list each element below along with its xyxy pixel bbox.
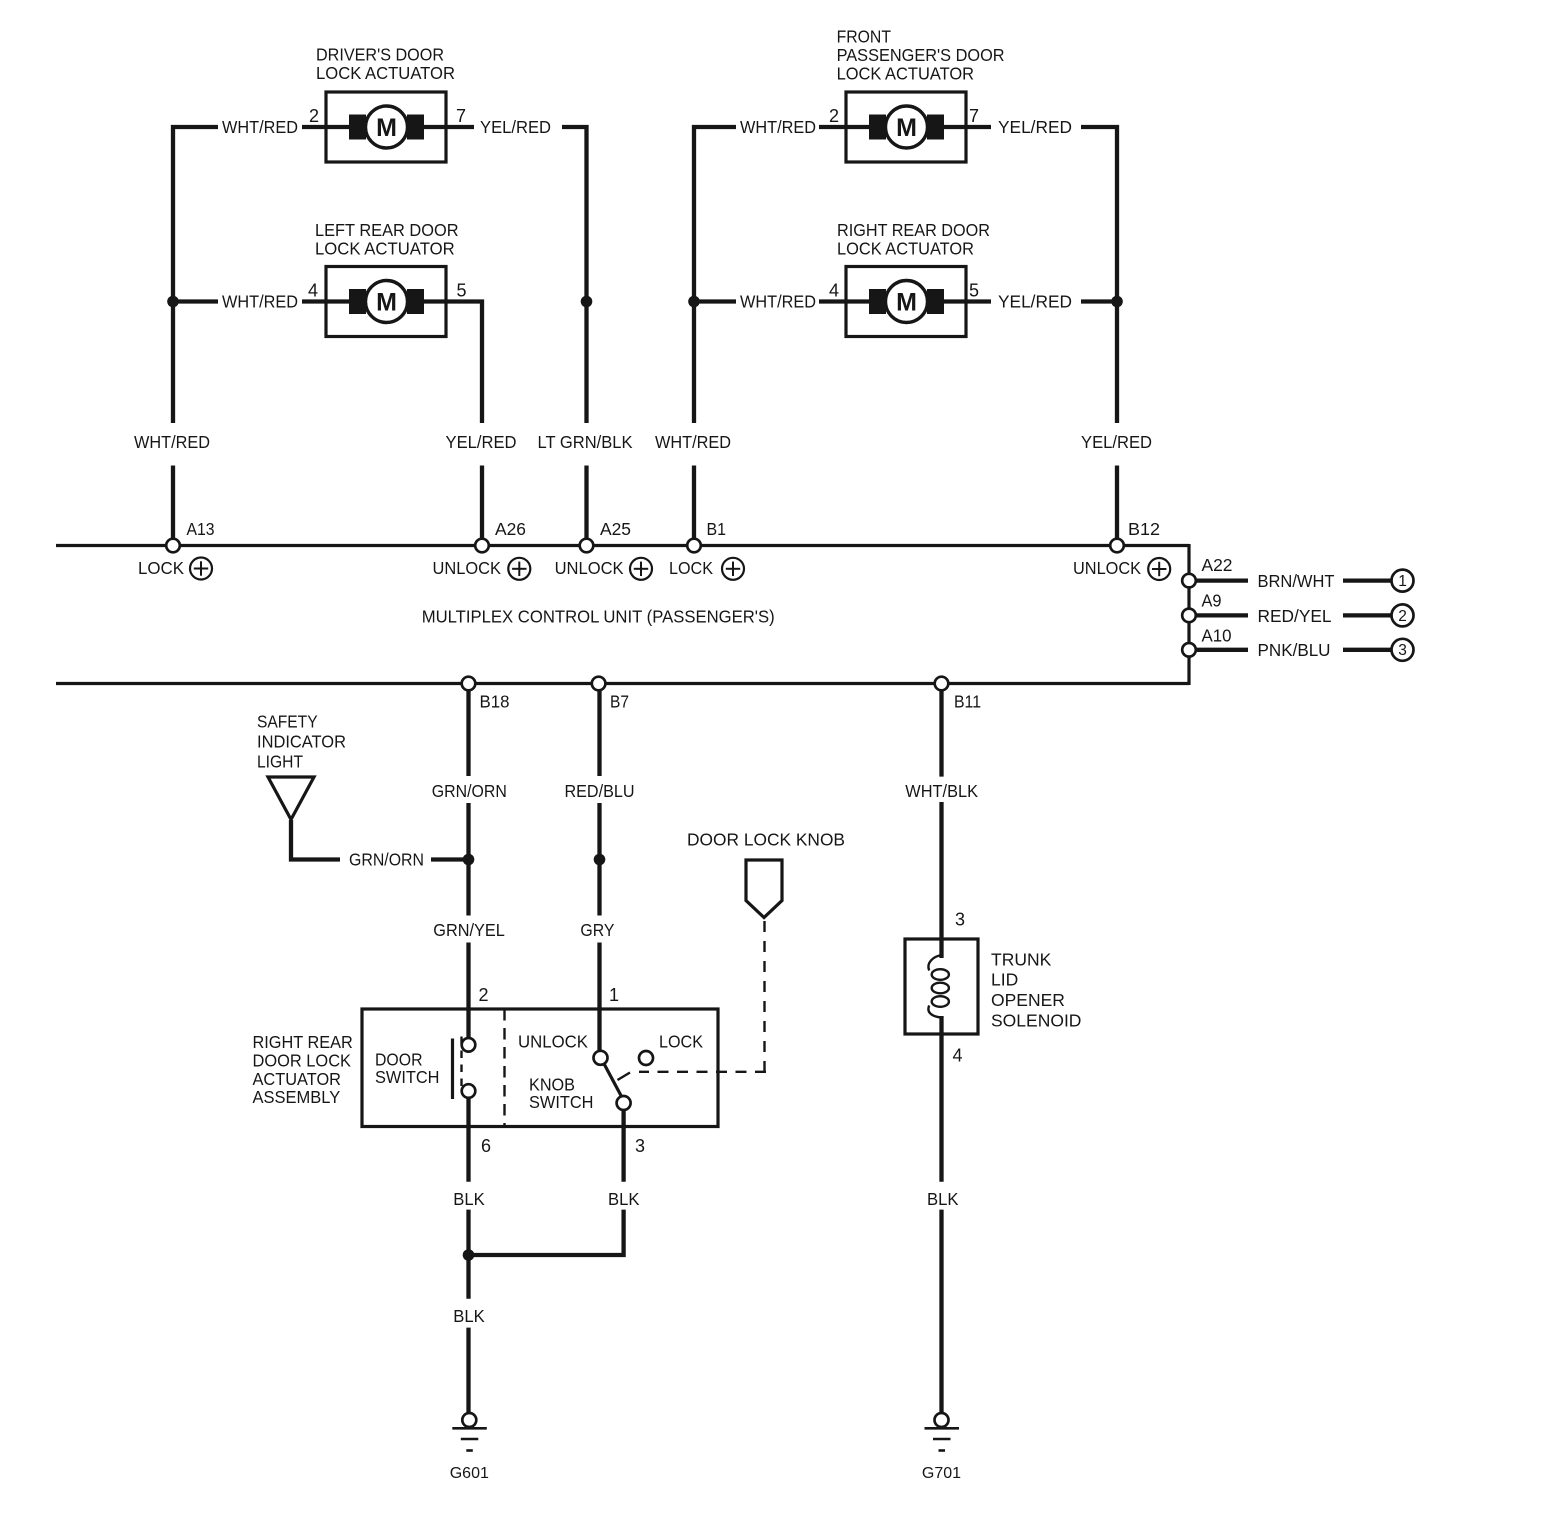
- multiplex control unit: right edge: [1187, 544, 1190, 685]
- terminal A9: [1182, 609, 1196, 623]
- svg-text:A13: A13: [187, 519, 215, 539]
- svg-text:ASSEMBLY: ASSEMBLY: [253, 1087, 341, 1107]
- svg-text:LT GRN/BLK: LT GRN/BLK: [538, 432, 633, 452]
- svg-text:3: 3: [635, 1136, 645, 1156]
- svg-text:FRONT: FRONT: [837, 27, 892, 47]
- svg-text:2: 2: [829, 106, 839, 126]
- svg-text:WHT/RED: WHT/RED: [740, 117, 816, 137]
- connector 1: [1392, 570, 1414, 592]
- wire segment into left rear door pin 4: [302, 299, 326, 303]
- motor M3: front passenger's door lock actuator: [846, 92, 966, 162]
- svg-text:YEL/RED: YEL/RED: [480, 117, 551, 137]
- svg-text:ACTUATOR: ACTUATOR: [253, 1069, 342, 1089]
- multiplex control unit: top edge bus: [56, 544, 1189, 547]
- trunk lid opener solenoid coil: [928, 955, 941, 971]
- node: junction dot on WHT/RED vertical: [167, 296, 179, 308]
- door switch contact (upper): [462, 1038, 476, 1052]
- svg-text:B18: B18: [480, 692, 510, 712]
- wire segment into right rear door pin 4: [819, 299, 846, 303]
- connector 2: [1392, 604, 1414, 626]
- svg-text:G701: G701: [922, 1465, 961, 1482]
- wire: WHT/RED vertical run to B1 with branch to front passenger pin 2: [694, 127, 736, 423]
- svg-text:B1: B1: [707, 519, 727, 539]
- svg-text:GRN/ORN: GRN/ORN: [349, 850, 424, 870]
- svg-text:UNLOCK: UNLOCK: [1073, 558, 1141, 578]
- knob switch blade: [604, 1064, 622, 1097]
- terminal A10: [1182, 643, 1196, 657]
- svg-text:DRIVER'S DOOR: DRIVER'S DOOR: [316, 45, 444, 65]
- node: junction dot on B12 vertical: [1111, 296, 1123, 308]
- svg-text:RIGHT REAR: RIGHT REAR: [253, 1032, 353, 1052]
- wire: front passenger pin 7 YEL/RED down to B12: [965, 125, 992, 129]
- svg-text:WHT/RED: WHT/RED: [222, 117, 298, 137]
- svg-text:LID: LID: [991, 970, 1018, 990]
- svg-text:BLK: BLK: [927, 1189, 959, 1209]
- motor M4: right rear door lock actuator: [846, 267, 966, 337]
- wire: knob switch common to ground junction: [621, 1110, 625, 1182]
- wire PNK/BLU from A10 to connector 3: [1196, 648, 1248, 652]
- node: junction dot on B18 vertical (safety indicator tap): [463, 854, 475, 866]
- svg-text:BLK: BLK: [453, 1189, 485, 1209]
- svg-text:1: 1: [609, 985, 619, 1005]
- terminal B12: [1110, 539, 1124, 553]
- svg-text:4: 4: [308, 281, 318, 301]
- wire: branch from WHT/RED junction to left rear door pin 4: [173, 299, 218, 303]
- svg-text:3: 3: [955, 910, 965, 930]
- wire: left rear door pin 5 down to A26: [446, 302, 482, 424]
- svg-text:SOLENOID: SOLENOID: [991, 1010, 1081, 1030]
- svg-text:PNK/BLU: PNK/BLU: [1258, 640, 1331, 660]
- svg-text:LOCK: LOCK: [138, 558, 184, 578]
- svg-text:BRN/WHT: BRN/WHT: [1258, 571, 1335, 591]
- svg-text:LOCK ACTUATOR: LOCK ACTUATOR: [315, 239, 455, 259]
- svg-text:WHT/BLK: WHT/BLK: [905, 781, 978, 801]
- wire from safety indicator light to GRN/ORN junction: [291, 820, 340, 860]
- svg-text:UNLOCK: UNLOCK: [555, 558, 624, 578]
- svg-text:RED/YEL: RED/YEL: [1258, 606, 1332, 626]
- ground G601: [452, 1413, 487, 1451]
- motor M1: driver's door lock actuator: [326, 92, 446, 162]
- svg-text:SWITCH: SWITCH: [375, 1067, 440, 1087]
- svg-text:LEFT REAR DOOR: LEFT REAR DOOR: [315, 220, 459, 240]
- svg-text:2: 2: [1398, 608, 1407, 625]
- svg-text:MULTIPLEX CONTROL UNIT (PASSEN: MULTIPLEX CONTROL UNIT (PASSENGER'S): [422, 607, 775, 627]
- svg-text:G601: G601: [450, 1465, 489, 1482]
- svg-text:A10: A10: [1202, 626, 1232, 646]
- svg-text:A25: A25: [600, 519, 631, 539]
- safety indicator light (triangle symbol): [268, 777, 314, 820]
- svg-text:5: 5: [969, 281, 979, 301]
- svg-text:LOCK ACTUATOR: LOCK ACTUATOR: [316, 63, 455, 83]
- svg-text:YEL/RED: YEL/RED: [998, 292, 1072, 312]
- svg-text:WHT/RED: WHT/RED: [740, 292, 816, 312]
- svg-text:B7: B7: [610, 692, 629, 712]
- svg-text:2: 2: [309, 106, 319, 126]
- wire: B7 RED/BLU vertical: [597, 690, 601, 776]
- svg-text:A22: A22: [1202, 555, 1233, 575]
- svg-text:DOOR LOCK: DOOR LOCK: [253, 1051, 352, 1071]
- svg-text:1: 1: [1398, 573, 1407, 590]
- svg-text:YEL/RED: YEL/RED: [446, 432, 517, 452]
- door switch contact (lower): [462, 1084, 476, 1098]
- door switch actuator bar: [451, 1039, 454, 1100]
- svg-text:6: 6: [481, 1136, 491, 1156]
- svg-text:LOCK: LOCK: [669, 558, 713, 578]
- svg-text:B11: B11: [954, 692, 981, 712]
- svg-text:A26: A26: [495, 519, 526, 539]
- dashed divider inside assembly box: [503, 1009, 505, 1127]
- door switch dashed plunger line: [460, 1037, 462, 1092]
- svg-text:7: 7: [969, 106, 979, 126]
- multiplex control unit: bottom edge bus: [56, 682, 1189, 685]
- svg-text:UNLOCK: UNLOCK: [433, 558, 502, 578]
- svg-text:SWITCH: SWITCH: [529, 1092, 594, 1112]
- connector 3: [1392, 639, 1414, 661]
- terminal A26: [475, 539, 489, 553]
- svg-text:A9: A9: [1202, 591, 1222, 611]
- svg-text:2: 2: [479, 985, 489, 1005]
- wire: door switch lower contact to ground junction: [466, 1098, 470, 1182]
- wire: B11 WHT/BLK vertical to trunk lid opener solenoid: [939, 690, 943, 776]
- trunk lid opener solenoid box: [905, 939, 978, 1034]
- svg-text:WHT/RED: WHT/RED: [655, 432, 731, 452]
- door lock knob (pentagon symbol): [746, 860, 782, 918]
- svg-text:5: 5: [457, 281, 467, 301]
- terminal B18: [462, 677, 476, 691]
- svg-text:RED/BLU: RED/BLU: [565, 781, 635, 801]
- wire: solenoid pin 4 to ground G701: [939, 1016, 943, 1182]
- svg-text:B12: B12: [1128, 519, 1160, 539]
- svg-text:GRY: GRY: [580, 920, 614, 940]
- node: junction dot on A25 vertical: [581, 296, 593, 308]
- right rear door lock actuator assembly box: [362, 1009, 718, 1127]
- motor M2: left rear door lock actuator: [326, 267, 446, 337]
- svg-text:YEL/RED: YEL/RED: [998, 117, 1072, 137]
- wire: branch from B1 junction to right rear door pin 4: [694, 299, 736, 303]
- terminal A25: [580, 539, 594, 553]
- dashed mechanical linkage from door lock knob to knob switch: [763, 921, 765, 1072]
- svg-text:BLK: BLK: [453, 1306, 485, 1326]
- svg-text:GRN/ORN: GRN/ORN: [432, 781, 507, 801]
- terminal B1: [687, 539, 701, 553]
- node: ground junction dot: [463, 1249, 475, 1261]
- wire: B18 GRN/ORN vertical: [466, 690, 470, 776]
- svg-text:WHT/RED: WHT/RED: [222, 292, 298, 312]
- svg-text:INDICATOR: INDICATOR: [257, 732, 346, 752]
- svg-text:7: 7: [456, 106, 466, 126]
- knob switch LOCK contact: [639, 1051, 653, 1065]
- svg-text:SAFETY: SAFETY: [257, 712, 318, 732]
- wire: WHT/RED branch to driver's door pin 2, vertical run to A13: [173, 127, 218, 423]
- terminal B11: [935, 677, 949, 691]
- svg-text:TRUNK: TRUNK: [991, 950, 1052, 970]
- svg-text:4: 4: [829, 281, 839, 301]
- wire: driver's door pin 7 YEL/RED down to A25: [446, 125, 474, 129]
- wire: junction to ground G601: [466, 1255, 470, 1299]
- svg-text:4: 4: [953, 1046, 963, 1066]
- svg-text:3: 3: [1398, 642, 1407, 659]
- svg-text:LOCK: LOCK: [659, 1032, 703, 1052]
- svg-text:LIGHT: LIGHT: [257, 752, 303, 772]
- node: junction dot on B1 vertical: [688, 296, 700, 308]
- ground G701: [925, 1413, 960, 1451]
- node: junction dot on B7 vertical: [594, 854, 606, 866]
- svg-text:LOCK ACTUATOR: LOCK ACTUATOR: [837, 64, 974, 84]
- wire RED/YEL from A9 to connector 2: [1196, 613, 1248, 617]
- svg-text:DOOR LOCK KNOB: DOOR LOCK KNOB: [687, 830, 845, 850]
- svg-text:YEL/RED: YEL/RED: [1081, 432, 1152, 452]
- wire BRN/WHT from A22 to connector 1: [1196, 578, 1248, 582]
- wire: right rear door pin 5 to B12 vertical: [965, 299, 992, 303]
- svg-text:RIGHT REAR DOOR: RIGHT REAR DOOR: [837, 220, 990, 240]
- knob switch UNLOCK contact: [594, 1051, 608, 1065]
- svg-text:WHT/RED: WHT/RED: [134, 432, 210, 452]
- svg-text:UNLOCK: UNLOCK: [518, 1032, 588, 1052]
- svg-text:PASSENGER'S DOOR: PASSENGER'S DOOR: [837, 45, 1005, 65]
- terminal A13: [166, 539, 180, 553]
- svg-text:OPENER: OPENER: [991, 990, 1065, 1010]
- wire segment into driver's door pin 2: [302, 125, 326, 129]
- svg-text:BLK: BLK: [608, 1189, 640, 1209]
- knob switch common contact: [617, 1096, 631, 1110]
- terminal A22: [1182, 574, 1196, 588]
- terminal B7: [592, 677, 606, 691]
- wire segment into front passenger pin 2: [819, 125, 846, 129]
- svg-text:LOCK ACTUATOR: LOCK ACTUATOR: [837, 239, 974, 259]
- svg-text:GRN/YEL: GRN/YEL: [433, 920, 505, 940]
